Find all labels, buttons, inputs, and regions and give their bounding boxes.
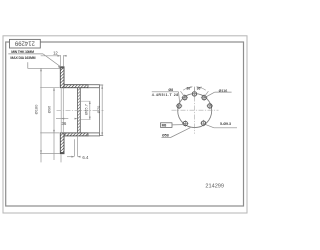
svg-text:214299: 214299 — [205, 184, 224, 190]
svg-text:Ø58: Ø58 — [162, 134, 169, 138]
svg-text:5-Ø9.3: 5-Ø9.3 — [220, 122, 231, 126]
svg-text:MAX DIA 163MM: MAX DIA 163MM — [10, 56, 35, 60]
svg-text:Ø70: Ø70 — [96, 105, 101, 113]
svg-text:4.4R5/1.T 28: 4.4R5/1.T 28 — [152, 93, 179, 97]
svg-text:214299: 214299 — [14, 40, 35, 46]
svg-text:36: 36 — [61, 121, 66, 126]
svg-text:Ø96: Ø96 — [47, 105, 52, 113]
svg-text:Ø65.7: Ø65.7 — [84, 103, 89, 115]
svg-text:Ø8: Ø8 — [168, 88, 173, 92]
svg-text:12: 12 — [53, 50, 58, 55]
svg-text:6.4: 6.4 — [82, 155, 89, 160]
svg-text:M8: M8 — [162, 124, 167, 128]
svg-text:36°: 36° — [197, 87, 203, 91]
svg-text:MIN THK 10MM: MIN THK 10MM — [11, 50, 34, 54]
svg-text:36°: 36° — [186, 87, 192, 91]
svg-text:Ø180: Ø180 — [33, 104, 38, 115]
